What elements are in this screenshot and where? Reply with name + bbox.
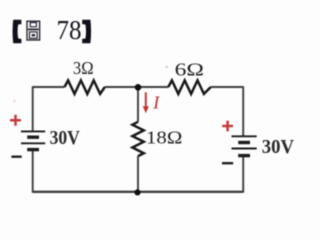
svg-text:6Ω: 6Ω — [175, 60, 204, 80]
svg-text:30V: 30V — [50, 128, 80, 149]
svg-text:I: I — [152, 92, 160, 112]
svg-text:18Ω: 18Ω — [146, 128, 182, 148]
svg-text:30V: 30V — [262, 137, 294, 158]
svg-text:3Ω: 3Ω — [73, 58, 94, 78]
svg-text:78: 78 — [57, 15, 82, 45]
